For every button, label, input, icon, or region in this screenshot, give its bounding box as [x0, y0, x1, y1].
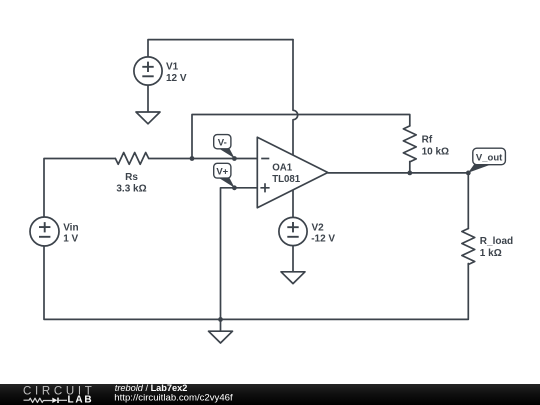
wire op-amp negative supply pin to V2 [292, 190, 294, 217]
svg-text:V-: V- [218, 137, 227, 148]
label R_load 1 k [480, 236, 513, 259]
label Vin 1 V [63, 222, 78, 244]
svg-text:http://circuitlab.com/c2vy46f: http://circuitlab.com/c2vy46f [114, 393, 233, 404]
svg-text:R_load: R_load [480, 236, 513, 247]
wire R_load bottom to bottom rail [221, 264, 469, 320]
label OA1 TL081 [272, 163, 301, 185]
wire bottom rail left to Vin [44, 246, 221, 319]
label V1 12 V [166, 62, 187, 84]
wire V1 bottom to ground [147, 85, 149, 112]
logo diode [52, 398, 57, 403]
wire Vin top up to Rs row [44, 159, 115, 217]
wire positive supply vertical (with hop over feedback wire) [293, 40, 298, 156]
op-amp non-inverting input marker [260, 183, 269, 192]
resistor R_load [462, 229, 475, 265]
node junction dots [190, 156, 471, 322]
node dot V- label [232, 156, 237, 161]
wire Rs to op-amp inverting input [149, 158, 258, 160]
svg-text:Rs: Rs [125, 172, 138, 183]
svg-text:OA1: OA1 [272, 163, 293, 174]
node dot V+ label [232, 185, 237, 190]
ground under V1 [136, 112, 160, 124]
svg-text:-12 V: -12 V [311, 234, 335, 245]
node flag V- [214, 135, 235, 159]
svg-text:V2: V2 [312, 222, 325, 233]
node dot bottom rail ground [218, 317, 223, 322]
node dot feedback tap [190, 156, 195, 161]
svg-text:3.3 kΩ: 3.3 kΩ [116, 184, 146, 195]
wire Rf bottom to output row [409, 162, 411, 173]
wire feedback branch up and right to Rf top [192, 115, 410, 159]
resistor Rf [403, 126, 416, 162]
svg-text:V+: V+ [216, 167, 228, 178]
node flag V+ [214, 163, 235, 187]
node dot Rf bottom [407, 171, 412, 176]
svg-text:TL081: TL081 [272, 174, 301, 185]
svg-text:V_out: V_out [476, 152, 503, 163]
op-amp inverting input marker [261, 158, 269, 160]
voltage source V1 [134, 57, 162, 85]
wire V1 top to positive supply [148, 40, 293, 57]
resistor Rs [115, 153, 148, 165]
label Rf 10 k [422, 135, 449, 158]
voltage source V2 [279, 217, 307, 245]
svg-text:1 V: 1 V [63, 234, 78, 245]
svg-text:LAB: LAB [68, 395, 94, 405]
svg-text:Vin: Vin [63, 222, 78, 233]
label Rs 3.3 k [116, 172, 146, 195]
svg-text:V1: V1 [166, 62, 179, 73]
wire non-inverting input to down branch [221, 188, 258, 320]
ground under V2 [281, 272, 305, 284]
label V2 -12 V [311, 222, 335, 244]
wire V2 bottom to ground [292, 246, 294, 272]
wire V_out down to R_load top [467, 173, 469, 229]
wire ground stub bottom middle [220, 319, 222, 331]
node dot V_out [466, 171, 471, 176]
voltage source Vin [30, 217, 59, 246]
op-amp OA1 [257, 137, 328, 208]
svg-text:12 V: 12 V [166, 73, 187, 84]
ground bottom middle [209, 331, 233, 343]
svg-text:Rf: Rf [422, 135, 433, 146]
wire op-amp output to V_out corner [328, 172, 469, 174]
svg-text:10 kΩ: 10 kΩ [422, 146, 449, 157]
node flag V_out [468, 148, 505, 173]
footer bar [0, 384, 540, 405]
svg-text:trebold / Lab7ex2: trebold / Lab7ex2 [115, 383, 188, 393]
svg-text:1 kΩ: 1 kΩ [480, 248, 502, 259]
logo trace resistor zigzag [24, 398, 53, 402]
